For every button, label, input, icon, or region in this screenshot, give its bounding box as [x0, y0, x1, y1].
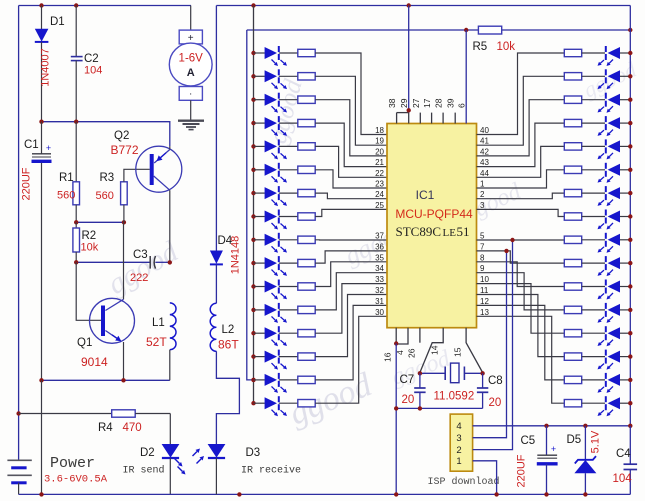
svg-text:41: 41	[480, 137, 489, 146]
battery Power 3.6-6V 0.5A	[18, 459, 20, 461]
svg-text:11: 11	[480, 286, 489, 295]
svg-text:23: 23	[375, 180, 384, 189]
wire left row 11 to pin 35	[315, 262, 387, 287]
resistor left row 10	[279, 262, 298, 264]
wire right row 11 from pin 8	[477, 262, 565, 287]
svg-text:1-6V: 1-6V	[179, 53, 204, 65]
wire left row 8 to pin 25	[315, 209, 387, 216]
junction pins 16-4 GND	[394, 341, 398, 345]
svg-text:D3: D3	[246, 447, 261, 459]
wire left row 2 to pin 19	[315, 76, 387, 145]
junction D5 top	[583, 424, 587, 428]
svg-text:ISP download: ISP download	[428, 476, 500, 488]
svg-text:+: +	[188, 33, 194, 44]
wire GND from pin16 down	[395, 344, 397, 495]
junction left bus row 9	[251, 238, 255, 242]
svg-text:D5: D5	[567, 434, 582, 446]
junction R3 bottom	[122, 220, 126, 224]
resistor left row 14	[279, 356, 298, 358]
wire pin 14 to crystal left	[420, 328, 443, 373]
wire left row 10 to pin 36	[315, 251, 387, 263]
wire ISP pin1 to ground	[473, 461, 497, 495]
svg-text:3: 3	[456, 433, 461, 444]
junction C1 top	[39, 120, 43, 124]
junction ISP pin3 at MCU pin7 wire	[504, 249, 508, 253]
svg-text:28: 28	[434, 98, 444, 108]
svg-text:1: 1	[480, 180, 485, 189]
LED right row 1	[605, 46, 607, 52]
junction left bus row 1	[251, 51, 255, 55]
wire VCC2 rail y=30 with feed down to LED bus	[247, 29, 631, 31]
svg-text:C5: C5	[521, 435, 536, 447]
svg-text:44: 44	[480, 169, 489, 178]
svg-text:104: 104	[613, 473, 633, 485]
wire left row 12 to pin 34	[315, 273, 387, 310]
svg-text:R4: R4	[98, 422, 113, 434]
ground symbol under motor	[178, 119, 204, 121]
LED right row 9	[605, 233, 607, 239]
capacitor C7 20pF	[419, 373, 421, 388]
svg-text:3: 3	[480, 201, 485, 210]
junction Q2 collector / L1 / C3 node	[168, 260, 172, 264]
wire node rail VCC2 y=121.7	[42, 122, 170, 147]
svg-text:C2: C2	[84, 53, 99, 65]
junction left bus row 4	[251, 121, 255, 125]
LED left row 10	[254, 262, 265, 264]
LED left row 15	[254, 379, 265, 381]
wire pin 15 to crystal right	[466, 328, 483, 373]
junction right bus row 9	[628, 238, 632, 242]
wire right row 10 from pin 7	[477, 251, 565, 263]
wire ground bottom rail y=494.4	[19, 493, 631, 495]
node top rail junction at D1	[39, 3, 43, 7]
wire crystal caps ground	[396, 407, 482, 409]
resistor right row 7	[564, 189, 581, 196]
svg-text:STC89C: STC89C	[396, 224, 442, 239]
junction L2 path ground	[237, 492, 241, 496]
junction VCC2 right bus	[628, 28, 632, 32]
junction ISP pin2 at MCU pin5 wire	[510, 238, 514, 242]
LED left row 16	[254, 402, 265, 404]
svg-text:33: 33	[375, 275, 384, 284]
LED right row 14	[605, 350, 607, 356]
junction right bus row 16	[628, 401, 632, 405]
junction left bus row 13	[251, 331, 255, 335]
wire right row 13 from pin 10	[477, 284, 565, 334]
resistor R1	[75, 122, 77, 182]
svg-text:R5: R5	[473, 41, 488, 53]
svg-text:24: 24	[375, 190, 384, 199]
svg-text:31: 31	[375, 297, 384, 306]
resistor right row 2	[564, 73, 581, 80]
svg-text:26: 26	[407, 348, 417, 358]
wire node rail B right / collector node	[155, 261, 170, 263]
wire Q1 collector to node A	[123, 222, 125, 299]
junction IC VCC riser top	[407, 3, 411, 7]
LED right row 15	[605, 373, 607, 379]
junction left bus row 8	[251, 214, 255, 218]
wire left row 9 to pin 37	[315, 239, 387, 241]
svg-text:21: 21	[375, 158, 384, 167]
junction right bus row 3	[628, 98, 632, 102]
wire pin 6 to R5 node	[465, 30, 467, 124]
wire left bus to ground rail	[41, 380, 43, 494]
transistor Q2 PNP B772	[136, 146, 182, 192]
svg-text:51: 51	[457, 224, 470, 239]
LED left row 11	[254, 286, 265, 288]
capacitor C4 104	[629, 426, 631, 464]
resistor right row 9	[564, 236, 581, 243]
resistor right row 12	[564, 306, 581, 313]
junction Q1 emitter	[121, 378, 125, 382]
svg-text:C3: C3	[133, 249, 148, 261]
wire right VCC bus	[629, 6, 631, 426]
wire ISP pin3 to pin7 node	[473, 251, 507, 438]
svg-text:C7: C7	[400, 374, 415, 386]
wire top VCC rail right section	[216, 5, 630, 7]
svg-text:9014: 9014	[81, 355, 108, 369]
wire right row 2 from pin 41	[477, 76, 565, 145]
wire ISP pin4 to VCC rail y=425.8	[473, 425, 631, 427]
resistor right row 16	[564, 400, 581, 407]
svg-text:11.0592: 11.0592	[434, 391, 475, 403]
junction R1 bottom	[74, 220, 78, 224]
connector ISP download header	[450, 414, 472, 471]
resistor left row 1	[279, 52, 298, 54]
junction right bus row 10	[628, 261, 632, 265]
resistor left row 9	[279, 239, 298, 241]
resistor left row 11	[279, 286, 298, 288]
svg-text:14: 14	[430, 345, 440, 355]
diode D4 1N4148	[215, 6, 217, 251]
junction left bus row 12	[251, 308, 255, 312]
svg-text:17: 17	[422, 98, 432, 108]
svg-text:15: 15	[453, 347, 463, 357]
svg-text:A: A	[187, 67, 195, 79]
svg-text:+: +	[46, 143, 51, 153]
LED right row 11	[605, 280, 607, 286]
svg-text:L2: L2	[222, 324, 235, 336]
LED right row 8	[605, 210, 607, 216]
svg-text:32: 32	[375, 286, 384, 295]
wire right row 5 from pin 44	[477, 146, 565, 177]
svg-text:MCU-PQFP44: MCU-PQFP44	[395, 207, 473, 221]
svg-text:1N4007: 1N4007	[40, 48, 52, 87]
junction right bus row 7	[628, 191, 632, 195]
svg-text:560: 560	[96, 190, 114, 202]
svg-text:20: 20	[375, 147, 384, 156]
LED left row 7	[254, 192, 265, 194]
wire left row 7 to pin 24	[315, 193, 387, 199]
svg-text:37: 37	[375, 232, 384, 241]
junction right bus row 6	[628, 168, 632, 172]
resistor left row 16	[279, 402, 298, 404]
svg-text:4: 4	[456, 421, 461, 432]
svg-text:18: 18	[375, 126, 384, 135]
LED right row 16	[605, 396, 607, 402]
svg-text:560: 560	[57, 190, 75, 202]
svg-text:10k: 10k	[497, 41, 516, 53]
svg-text:25: 25	[375, 201, 384, 210]
wire right row 1 from pin 40	[477, 53, 565, 135]
wire right row 9 from pin 5	[477, 239, 565, 241]
resistor left row 13	[279, 332, 298, 334]
diode D1	[41, 6, 43, 30]
svg-text:R2: R2	[82, 230, 97, 242]
svg-text:2: 2	[480, 190, 485, 199]
svg-text:5.1V: 5.1V	[590, 430, 602, 453]
junction GND at C7 rail	[394, 406, 398, 410]
wire left row 4 to pin 21	[315, 123, 387, 167]
LED D2 IR send	[169, 414, 171, 445]
svg-text:D2: D2	[140, 447, 155, 459]
LED right row 2	[605, 69, 607, 75]
resistor left row 4	[279, 122, 298, 124]
svg-text:·: ·	[189, 89, 192, 100]
wire right row 7 from pin 2	[477, 193, 565, 199]
junction D5 bottom	[583, 492, 587, 496]
junction right bus row 12	[628, 308, 632, 312]
svg-text:8: 8	[480, 253, 485, 262]
junction left LED bus top	[251, 3, 255, 7]
wire top-left VCC rail	[19, 5, 191, 7]
capacitor C1 polarized	[41, 122, 43, 154]
resistor left row 2	[279, 75, 298, 77]
wire right row 3 from pin 42	[477, 100, 565, 156]
svg-text:20: 20	[402, 394, 415, 406]
wire right row 15 from pin 12	[477, 305, 565, 380]
wire Q1 base feed	[76, 262, 101, 320]
LED right row 7	[605, 186, 607, 192]
svg-text:IR send: IR send	[123, 465, 165, 477]
resistor left row 3	[279, 99, 298, 101]
LED left row 14	[254, 356, 265, 358]
junction bus feed at row 15	[251, 378, 255, 382]
resistor R4 470	[112, 410, 136, 417]
inductor L1 52T	[170, 303, 176, 350]
junction left bus row 5	[251, 144, 255, 148]
LED left row 4	[254, 122, 265, 124]
svg-text:36: 36	[375, 242, 384, 251]
svg-text:B772: B772	[111, 143, 139, 157]
resistor right row 15	[564, 376, 581, 383]
svg-text:L1: L1	[152, 317, 165, 329]
wire left row 5 to pin 22	[315, 146, 387, 177]
svg-text:Q1: Q1	[77, 337, 92, 349]
capacitor C3	[149, 256, 151, 269]
junction C7 bottom	[418, 406, 422, 410]
LED left row 6	[254, 169, 265, 171]
svg-text:19: 19	[375, 137, 384, 146]
junction right bus row 2	[628, 74, 632, 78]
junction right bus at VCC rail	[628, 424, 632, 428]
junction R5 left / pin6 node	[464, 28, 468, 32]
junction right bus row 13	[628, 331, 632, 335]
svg-text:IC1: IC1	[416, 188, 435, 202]
svg-text:42: 42	[480, 147, 489, 156]
resistor right row 14	[564, 353, 581, 360]
junction right bus row 14	[628, 354, 632, 358]
resistor left row 6	[279, 169, 298, 171]
svg-text:1: 1	[456, 456, 461, 467]
IC top pin stubs 38 29 27 17 28 39 6	[396, 113, 398, 124]
svg-text:6: 6	[457, 103, 467, 108]
svg-text:20: 20	[489, 397, 502, 409]
wire node rail B left y=262.3	[76, 261, 150, 263]
wire L2 bottom to D3 anode	[216, 351, 239, 444]
svg-text:27: 27	[411, 98, 421, 108]
svg-text:52T: 52T	[146, 335, 167, 349]
IC bottom pin stubs 16 4 26 14 15	[395, 328, 397, 344]
capacitor C8 20pF	[482, 373, 484, 388]
resistor left row 7	[279, 192, 298, 194]
wire left row 3 to pin 20	[315, 100, 387, 156]
junction right bus row 4	[628, 121, 632, 125]
wire node rail A y=222.3	[76, 221, 124, 223]
inductor L2 86T	[210, 303, 216, 351]
crystal Y1 11.0592	[420, 372, 445, 374]
LED left row 2	[254, 75, 265, 77]
junction left bus row 2	[251, 74, 255, 78]
svg-text:30: 30	[375, 308, 384, 317]
LED left row 9	[254, 239, 265, 241]
wire left row 6 to pin 23	[315, 170, 387, 188]
junction right bus row 5	[628, 144, 632, 148]
svg-text:D1: D1	[50, 16, 65, 28]
resistor R3	[121, 182, 128, 205]
LED right row 3	[605, 93, 607, 99]
svg-text:86T: 86T	[218, 338, 239, 352]
LED D3 IR receive	[208, 444, 226, 458]
svg-text:2: 2	[456, 445, 461, 456]
svg-text:22: 22	[375, 169, 384, 178]
svg-text:C8: C8	[488, 375, 503, 387]
svg-text:R1: R1	[59, 172, 74, 184]
resistor right row 11	[564, 283, 581, 290]
svg-text:IR receive: IR receive	[241, 465, 301, 477]
junction left bus row 16	[251, 401, 255, 405]
svg-text:12: 12	[480, 297, 489, 306]
wire ISP pin2 to pin5 node	[473, 240, 513, 450]
junction left bus row 7	[251, 191, 255, 195]
resistor R2	[75, 222, 77, 228]
svg-text:9: 9	[480, 264, 485, 273]
wire left frame vertical	[18, 6, 20, 461]
wire right row 16 from pin 13	[477, 316, 565, 403]
wire emitter rail y=380.3	[42, 379, 170, 381]
junction right bus row 8	[628, 214, 632, 218]
svg-text:35: 35	[375, 253, 384, 262]
svg-text:C1: C1	[24, 139, 39, 151]
transistor Q1 NPN 9014	[90, 298, 135, 343]
IC IC1 MCU-PQFP44 STC89C body	[387, 124, 477, 328]
wire R4 rail y=413.5	[16, 411, 20, 415]
wire left LED anode bus	[253, 6, 255, 404]
resistor left row 15	[279, 379, 298, 381]
svg-text:7: 7	[480, 242, 485, 251]
junction pins 38-29 VCC	[407, 108, 411, 112]
LED right row 12	[605, 303, 607, 309]
junction C5 bottom	[544, 492, 548, 496]
LED right row 6	[605, 163, 607, 169]
node top rail junction at C2	[74, 3, 78, 7]
wire VCC riser to pins 38/29	[408, 6, 410, 113]
wire right row 14 from pin 11	[477, 295, 565, 357]
svg-text:LE: LE	[443, 227, 457, 239]
wire left row 16 to pin 30	[315, 316, 387, 403]
resistor left row 8	[279, 216, 298, 218]
svg-text:34: 34	[375, 264, 384, 273]
junction R2 bottom	[74, 260, 78, 264]
junction crystal right node	[480, 371, 484, 375]
junction left bus row 10	[251, 261, 255, 265]
svg-text:10: 10	[480, 275, 489, 284]
wire left row 14 to pin 32	[315, 295, 387, 357]
junction right bus row 1	[628, 51, 632, 55]
svg-text:40: 40	[480, 126, 489, 135]
junction ISP pin1 ground	[494, 492, 498, 496]
svg-text:43: 43	[480, 158, 489, 167]
svg-text:5: 5	[480, 232, 485, 241]
junction left bus row 3	[251, 98, 255, 102]
svg-text:29: 29	[399, 98, 409, 108]
resistor R5 10k	[478, 26, 501, 34]
motor M 1-6V	[190, 6, 192, 31]
LED left row 13	[254, 332, 265, 334]
junction crystal left node	[418, 371, 422, 375]
svg-text:220UF: 220UF	[516, 454, 528, 487]
wire right row 8 from pin 3	[477, 209, 565, 216]
svg-text:10k: 10k	[81, 242, 99, 254]
wire left row 15 to pin 31	[315, 305, 387, 380]
resistor left row 12	[279, 309, 298, 311]
svg-text:Power: Power	[50, 455, 95, 472]
wire left row 1 to pin 18	[315, 53, 387, 135]
resistor right row 4	[564, 119, 581, 126]
junction left bus row 6	[251, 168, 255, 172]
capacitor C2	[75, 6, 77, 57]
resistor right row 1	[564, 49, 581, 56]
junction left bus row 14	[251, 354, 255, 358]
svg-text:1N4148: 1N4148	[230, 236, 242, 275]
junction left bus row 15	[251, 378, 255, 382]
junction right bus row 15	[628, 378, 632, 382]
svg-text:Q2: Q2	[114, 130, 129, 142]
LED left row 1	[254, 52, 265, 54]
LED left row 12	[254, 309, 265, 311]
diode D5 zener 5.1V	[584, 426, 586, 460]
LED right row 4	[605, 116, 607, 122]
svg-text:222: 222	[130, 272, 148, 284]
capacitor C5 220UF polarized	[546, 426, 548, 455]
resistor right row 6	[564, 166, 581, 173]
svg-text:38: 38	[387, 98, 397, 108]
resistor right row 10	[564, 259, 581, 266]
resistor right row 5	[564, 143, 581, 150]
junction right bus row 11	[628, 284, 632, 288]
junction C1/bus at emitter rail	[39, 378, 43, 382]
LED left row 3	[254, 99, 265, 101]
svg-text:C4: C4	[616, 448, 631, 460]
junction R1 top	[74, 120, 78, 124]
LED right row 5	[605, 139, 607, 145]
junction left bus row 11	[251, 284, 255, 288]
wire right row 4 from pin 43	[477, 123, 565, 167]
svg-text:+: +	[551, 444, 556, 454]
resistor right row 3	[564, 96, 581, 103]
svg-text:470: 470	[123, 422, 142, 434]
resistor right row 8	[564, 213, 581, 220]
